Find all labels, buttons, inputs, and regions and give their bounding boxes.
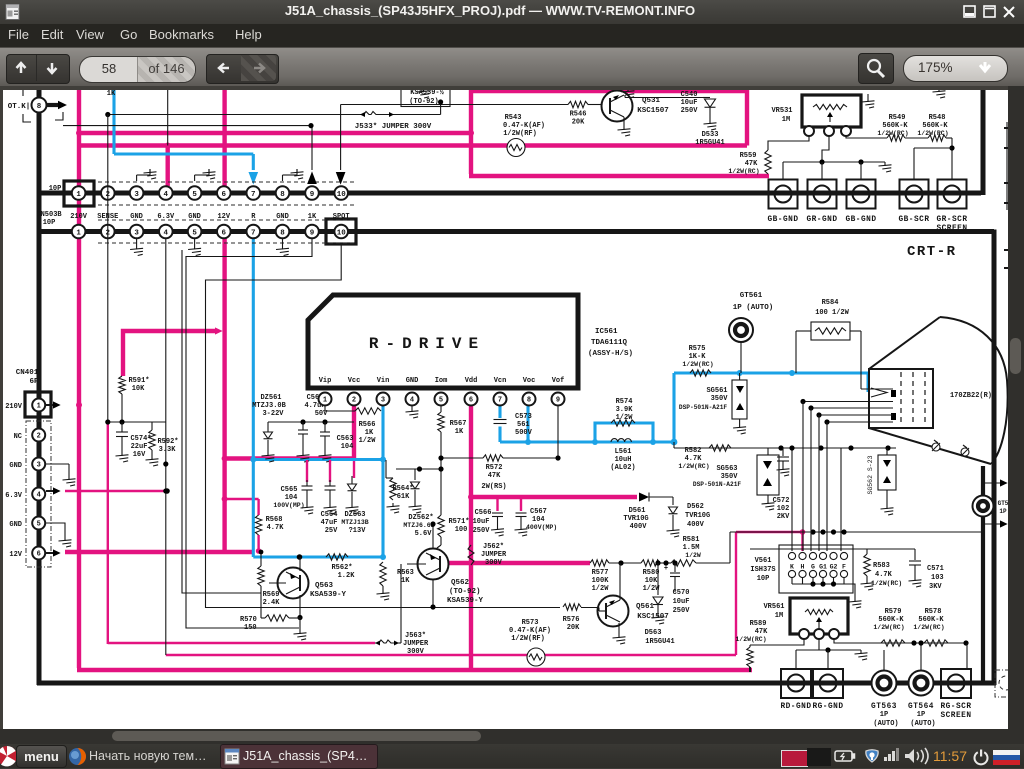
- svg-text:R591*: R591*: [128, 377, 149, 385]
- svg-text:10P: 10P: [757, 575, 770, 583]
- svg-text:400V(MP): 400V(MP): [526, 524, 557, 531]
- svg-text:VR561: VR561: [763, 603, 784, 611]
- svg-text:R575: R575: [689, 345, 706, 353]
- svg-text:Vdd: Vdd: [465, 377, 478, 385]
- svg-text:3: 3: [134, 229, 139, 237]
- svg-text:1R5GU41: 1R5GU41: [695, 139, 724, 147]
- svg-text:3: 3: [381, 397, 385, 405]
- svg-text:C572: C572: [773, 497, 790, 505]
- svg-text:1M: 1M: [782, 116, 790, 124]
- svg-text:1: 1: [37, 403, 41, 411]
- svg-text:6: 6: [222, 191, 227, 199]
- svg-text:1/2W(RF): 1/2W(RF): [503, 130, 537, 138]
- svg-text:KSC1507: KSC1507: [637, 613, 669, 621]
- svg-text:DSP-501N-A21F: DSP-501N-A21F: [679, 404, 728, 411]
- svg-text:1/2W(RC): 1/2W(RC): [728, 168, 759, 175]
- svg-text:C573: C573: [515, 413, 532, 421]
- svg-text:J563*: J563*: [405, 632, 426, 640]
- svg-text:CN503B: CN503B: [36, 211, 62, 219]
- svg-text:10K: 10K: [645, 577, 658, 585]
- svg-text:C564: C564: [321, 511, 338, 519]
- svg-text:1K: 1K: [401, 577, 410, 585]
- svg-text:D533: D533: [702, 131, 719, 139]
- svg-text:47uF: 47uF: [321, 519, 338, 527]
- svg-text:+: +: [664, 565, 668, 573]
- svg-text:300V: 300V: [485, 559, 503, 567]
- svg-text:(AL02): (AL02): [610, 464, 635, 472]
- svg-text:1M: 1M: [775, 612, 783, 620]
- svg-text:IC561: IC561: [595, 328, 618, 336]
- svg-text:25V: 25V: [325, 527, 338, 535]
- svg-text:GT564: GT564: [908, 703, 934, 711]
- svg-text:2.4K: 2.4K: [263, 599, 281, 607]
- svg-text:GND: GND: [406, 377, 419, 385]
- svg-text:R570: R570: [240, 616, 257, 624]
- svg-text:2KV: 2KV: [777, 513, 790, 521]
- svg-text:6: 6: [37, 551, 41, 559]
- svg-text:JUMPER: JUMPER: [403, 640, 429, 648]
- svg-text:L561: L561: [615, 448, 632, 456]
- svg-text:1P (AUTO): 1P (AUTO): [733, 304, 774, 312]
- svg-text:3.3K: 3.3K: [159, 446, 177, 454]
- svg-text:4.7K: 4.7K: [875, 571, 893, 579]
- svg-text:1/2W: 1/2W: [616, 414, 634, 422]
- svg-text:100: 100: [455, 526, 468, 534]
- svg-text:500V: 500V: [515, 429, 533, 437]
- svg-text:RG-SCR: RG-SCR: [940, 703, 971, 711]
- svg-text:GND: GND: [9, 462, 22, 470]
- svg-text:GT563: GT563: [871, 703, 897, 711]
- svg-text:8: 8: [527, 397, 531, 405]
- svg-text:20K: 20K: [572, 119, 585, 127]
- svg-text:3.9K: 3.9K: [616, 406, 634, 414]
- svg-text:1K: 1K: [107, 90, 116, 98]
- svg-text:D562: D562: [687, 503, 704, 511]
- svg-text:R569: R569: [263, 591, 280, 599]
- svg-text:MTZJ6.6B: MTZJ6.6B: [403, 522, 434, 529]
- svg-text:SCREEN: SCREEN: [940, 712, 971, 720]
- svg-text:R584: R584: [822, 299, 839, 307]
- svg-text:1K-K: 1K-K: [689, 353, 707, 361]
- svg-text:0.47-K(AF): 0.47-K(AF): [503, 122, 545, 130]
- svg-text:G1: G1: [819, 564, 827, 571]
- svg-text:TDA6111Q: TDA6111Q: [591, 339, 628, 347]
- svg-text:C571: C571: [927, 565, 944, 573]
- svg-text:R568: R568: [266, 516, 283, 524]
- svg-text:1: 1: [76, 191, 81, 199]
- svg-text:7: 7: [251, 229, 256, 237]
- svg-text:Vcc: Vcc: [348, 377, 361, 385]
- svg-text:R579: R579: [885, 608, 902, 616]
- svg-text:CN401: CN401: [16, 369, 39, 377]
- svg-text:Iom: Iom: [435, 377, 448, 385]
- svg-text:C566: C566: [475, 509, 492, 517]
- svg-text:4: 4: [410, 397, 414, 405]
- svg-text:561: 561: [517, 421, 530, 429]
- svg-text:10uH: 10uH: [615, 456, 632, 464]
- svg-text:9: 9: [556, 397, 560, 405]
- svg-text:SG561: SG561: [706, 387, 727, 395]
- svg-text:560K-K: 560K-K: [882, 122, 908, 130]
- svg-text:8: 8: [280, 229, 285, 237]
- svg-text:3-22V: 3-22V: [262, 410, 284, 418]
- svg-text:1K: 1K: [365, 429, 374, 437]
- svg-text:Vin: Vin: [377, 377, 390, 385]
- svg-text:6.3V: 6.3V: [5, 492, 23, 500]
- svg-text:104: 104: [285, 494, 298, 502]
- svg-text:1K: 1K: [308, 213, 317, 221]
- svg-text:K: K: [790, 564, 794, 571]
- svg-text:7: 7: [251, 191, 256, 199]
- svg-text:12V: 12V: [217, 213, 230, 221]
- svg-text:MTZJ13B: MTZJ13B: [341, 519, 368, 526]
- svg-text:KSC1507: KSC1507: [637, 107, 669, 115]
- svg-text:Vcn: Vcn: [494, 377, 507, 385]
- svg-text:Voc: Voc: [523, 377, 536, 385]
- svg-text:5: 5: [192, 229, 197, 237]
- svg-text:V561: V561: [755, 557, 772, 565]
- svg-text:1/2W(RF): 1/2W(RF): [511, 635, 545, 643]
- svg-text:104: 104: [341, 443, 354, 451]
- svg-text:ISH37S: ISH37S: [750, 566, 775, 574]
- svg-text:SG563: SG563: [716, 465, 737, 473]
- svg-text:1P: 1P: [917, 711, 925, 719]
- svg-text:10uF: 10uF: [673, 598, 690, 606]
- svg-text:1: 1: [323, 397, 327, 405]
- svg-text:3: 3: [134, 191, 139, 199]
- svg-text:GR-GND: GR-GND: [806, 216, 837, 224]
- svg-text:5: 5: [37, 521, 41, 529]
- svg-text:R559: R559: [740, 152, 757, 160]
- svg-text:C565: C565: [281, 486, 298, 494]
- svg-text:Q562: Q562: [451, 579, 470, 587]
- svg-text:GND: GND: [9, 521, 22, 529]
- svg-text:1.5M: 1.5M: [683, 544, 700, 552]
- svg-text:560K-K: 560K-K: [918, 616, 944, 624]
- svg-text:R548: R548: [929, 114, 946, 122]
- svg-text:100K: 100K: [592, 577, 610, 585]
- svg-text:R549: R549: [889, 114, 906, 122]
- svg-text:?13V: ?13V: [349, 527, 367, 535]
- svg-text:7: 7: [498, 397, 502, 405]
- svg-text:2W(RS): 2W(RS): [481, 483, 506, 491]
- svg-text:GND: GND: [276, 213, 289, 221]
- svg-text:1/2W(RC): 1/2W(RC): [682, 361, 713, 368]
- svg-text:CRT-R: CRT-R: [907, 244, 957, 260]
- svg-text:(ASSY-H/S): (ASSY-H/S): [588, 350, 633, 358]
- svg-text:6P: 6P: [29, 378, 39, 386]
- svg-text:1P: 1P: [999, 508, 1007, 515]
- svg-text:C574*: C574*: [130, 435, 151, 443]
- svg-text:250V: 250V: [473, 527, 491, 535]
- svg-text:F: F: [842, 564, 846, 571]
- svg-text:22uF: 22uF: [131, 443, 148, 451]
- svg-text:Q561: Q561: [636, 603, 655, 611]
- svg-text:47K: 47K: [745, 160, 758, 168]
- svg-text:1/2W(RC): 1/2W(RC): [873, 624, 904, 631]
- svg-text:400V: 400V: [630, 523, 648, 531]
- svg-text:JUMPER: JUMPER: [481, 551, 507, 559]
- svg-text:GT561: GT561: [740, 292, 763, 300]
- svg-text:GB-GND: GB-GND: [845, 216, 876, 224]
- svg-text:R566: R566: [359, 421, 376, 429]
- svg-text:100 1/2W: 100 1/2W: [815, 309, 849, 317]
- svg-text:R564*: R564*: [392, 485, 413, 493]
- svg-text:J533* JUMPER 300V: J533* JUMPER 300V: [355, 123, 432, 131]
- svg-text:10: 10: [337, 229, 347, 237]
- svg-text:H: H: [801, 564, 805, 571]
- svg-text:16V: 16V: [133, 451, 146, 459]
- svg-text:SG562 S-23: SG562 S-23: [867, 455, 874, 494]
- svg-text:R567: R567: [450, 420, 467, 428]
- svg-text:2: 2: [37, 433, 41, 441]
- svg-text:Q531: Q531: [642, 97, 661, 105]
- svg-text:9: 9: [310, 191, 315, 199]
- svg-text:2: 2: [352, 397, 356, 405]
- svg-text:560K-K: 560K-K: [878, 616, 904, 624]
- svg-text:D563: D563: [645, 629, 662, 637]
- svg-text:5: 5: [192, 191, 197, 199]
- svg-text:20K: 20K: [567, 624, 580, 632]
- svg-text:10P: 10P: [49, 185, 62, 193]
- svg-text:J562*: J562*: [483, 543, 504, 551]
- svg-text:250V: 250V: [673, 607, 691, 615]
- svg-text:103: 103: [931, 574, 944, 582]
- svg-text:10uF: 10uF: [681, 99, 698, 107]
- svg-text:C563: C563: [337, 435, 354, 443]
- svg-text:NC: NC: [14, 433, 22, 441]
- svg-text:SCREEN: SCREEN: [936, 225, 967, 233]
- svg-text:(TO-92): (TO-92): [449, 588, 481, 596]
- svg-text:12V: 12V: [9, 551, 22, 559]
- svg-text:R-DRIVE: R-DRIVE: [369, 335, 485, 353]
- svg-text:1P: 1P: [880, 711, 888, 719]
- svg-text:KSA539-Y: KSA539-Y: [310, 591, 347, 599]
- svg-text:R572: R572: [486, 464, 503, 472]
- svg-text:10uF: 10uF: [473, 518, 490, 526]
- svg-text:4: 4: [37, 492, 41, 500]
- svg-text:6: 6: [469, 397, 473, 405]
- svg-text:1/2W(RC): 1/2W(RC): [735, 636, 766, 643]
- svg-text:6: 6: [222, 229, 227, 237]
- svg-text:R563: R563: [397, 569, 414, 577]
- svg-text:1.2K: 1.2K: [338, 572, 356, 580]
- svg-text:R589: R589: [750, 620, 767, 628]
- svg-text:TVR10G: TVR10G: [685, 512, 710, 520]
- svg-text:61K: 61K: [397, 493, 410, 501]
- svg-text:KSA539-Y: KSA539-Y: [447, 597, 484, 605]
- svg-text:6.3V: 6.3V: [157, 213, 175, 221]
- svg-text:102: 102: [777, 505, 790, 513]
- svg-text:4: 4: [164, 191, 169, 199]
- svg-text:R571*: R571*: [448, 518, 469, 526]
- svg-text:C570: C570: [673, 589, 690, 597]
- svg-text:1: 1: [76, 229, 81, 237]
- svg-text:Q563: Q563: [315, 582, 334, 590]
- svg-text:10K: 10K: [132, 385, 145, 393]
- svg-text:100V(MP): 100V(MP): [273, 502, 304, 509]
- svg-text:1K: 1K: [455, 428, 464, 436]
- svg-text:VR531: VR531: [771, 107, 792, 115]
- svg-text:1/2W(RC): 1/2W(RC): [913, 624, 944, 631]
- svg-text:R573: R573: [522, 619, 539, 627]
- svg-text:R543: R543: [505, 114, 522, 122]
- svg-text:210V: 210V: [5, 403, 23, 411]
- svg-text:1/2W(RC): 1/2W(RC): [877, 130, 908, 137]
- svg-text:C540: C540: [681, 91, 698, 99]
- svg-text:R574: R574: [616, 398, 633, 406]
- svg-text:350V: 350V: [711, 395, 729, 403]
- svg-text:GB-GND: GB-GND: [767, 216, 798, 224]
- svg-text:GND: GND: [188, 213, 201, 221]
- svg-text:104: 104: [532, 516, 545, 524]
- svg-text:R577: R577: [592, 569, 609, 577]
- svg-text:R562*: R562*: [331, 564, 352, 572]
- svg-text:R546: R546: [570, 111, 587, 119]
- svg-text:1/2W: 1/2W: [359, 437, 377, 445]
- svg-text:8: 8: [280, 191, 285, 199]
- svg-text:Vof: Vof: [552, 377, 565, 385]
- svg-text:(TO-92): (TO-92): [409, 98, 438, 106]
- svg-text:0.47-K(AF): 0.47-K(AF): [509, 627, 551, 635]
- svg-text:9: 9: [310, 229, 315, 237]
- svg-text:5.6V: 5.6V: [415, 530, 433, 538]
- svg-text:10: 10: [337, 191, 347, 199]
- svg-text:GB-SCR: GB-SCR: [898, 216, 929, 224]
- svg-text:DZ562*: DZ562*: [408, 514, 433, 522]
- svg-text:DZ561: DZ561: [260, 394, 281, 402]
- svg-text:150: 150: [244, 624, 257, 632]
- svg-text:210V: 210V: [70, 213, 88, 221]
- svg-text:3KV: 3KV: [929, 583, 942, 591]
- svg-text:OT.K|: OT.K|: [8, 103, 31, 111]
- svg-text:Vip: Vip: [319, 377, 332, 385]
- svg-text:3: 3: [37, 462, 41, 470]
- svg-text:C567: C567: [530, 508, 547, 516]
- svg-text:1R5GU41: 1R5GU41: [645, 638, 674, 646]
- svg-text:560K-K: 560K-K: [922, 122, 948, 130]
- svg-text:D561: D561: [629, 507, 646, 515]
- svg-text:RG-GND: RG-GND: [812, 703, 843, 711]
- svg-text:5: 5: [439, 397, 443, 405]
- svg-text:MTZJ3.0B: MTZJ3.0B: [252, 402, 286, 410]
- svg-text:RD-GND: RD-GND: [780, 703, 811, 711]
- svg-text:300V: 300V: [407, 648, 425, 656]
- svg-text:4.7K: 4.7K: [685, 455, 703, 463]
- svg-text:R576: R576: [563, 616, 580, 624]
- svg-text:1/2W(RC): 1/2W(RC): [678, 463, 709, 470]
- svg-text:47K: 47K: [488, 472, 501, 480]
- svg-text:R582: R582: [685, 447, 702, 455]
- svg-text:1/2W: 1/2W: [685, 552, 701, 559]
- svg-text:(AUTO): (AUTO): [873, 720, 898, 728]
- svg-text:4.7K: 4.7K: [267, 524, 285, 532]
- svg-text:R592*: R592*: [157, 438, 178, 446]
- svg-text:250V: 250V: [681, 107, 699, 115]
- svg-text:DZ563: DZ563: [344, 511, 365, 519]
- svg-text:GR-SCR: GR-SCR: [936, 216, 967, 224]
- svg-text:R583: R583: [873, 562, 890, 570]
- svg-text:10P: 10P: [43, 219, 56, 227]
- svg-text:GND: GND: [130, 213, 143, 221]
- svg-text:(AUTO): (AUTO): [910, 720, 935, 728]
- svg-text:G2: G2: [830, 564, 838, 571]
- svg-text:R578: R578: [925, 608, 942, 616]
- svg-text:1/2W(RC): 1/2W(RC): [917, 130, 948, 137]
- svg-text:4: 4: [164, 229, 169, 237]
- svg-text:170ZB22(R): 170ZB22(R): [950, 392, 992, 400]
- svg-text:400V: 400V: [687, 521, 705, 529]
- svg-text:350V: 350V: [721, 473, 739, 481]
- svg-text:47K: 47K: [755, 628, 768, 636]
- svg-text:1/2W: 1/2W: [592, 585, 610, 593]
- svg-text:R580: R580: [643, 569, 660, 577]
- svg-text:G: G: [811, 564, 815, 571]
- svg-text:SPOT: SPOT: [333, 213, 350, 221]
- svg-text:8: 8: [37, 103, 42, 111]
- svg-text:R581: R581: [683, 536, 700, 544]
- svg-text:DSP-501N-A21F: DSP-501N-A21F: [693, 481, 742, 488]
- svg-text:1/2W(RC): 1/2W(RC): [871, 580, 902, 587]
- svg-text:TVR10G: TVR10G: [623, 515, 648, 523]
